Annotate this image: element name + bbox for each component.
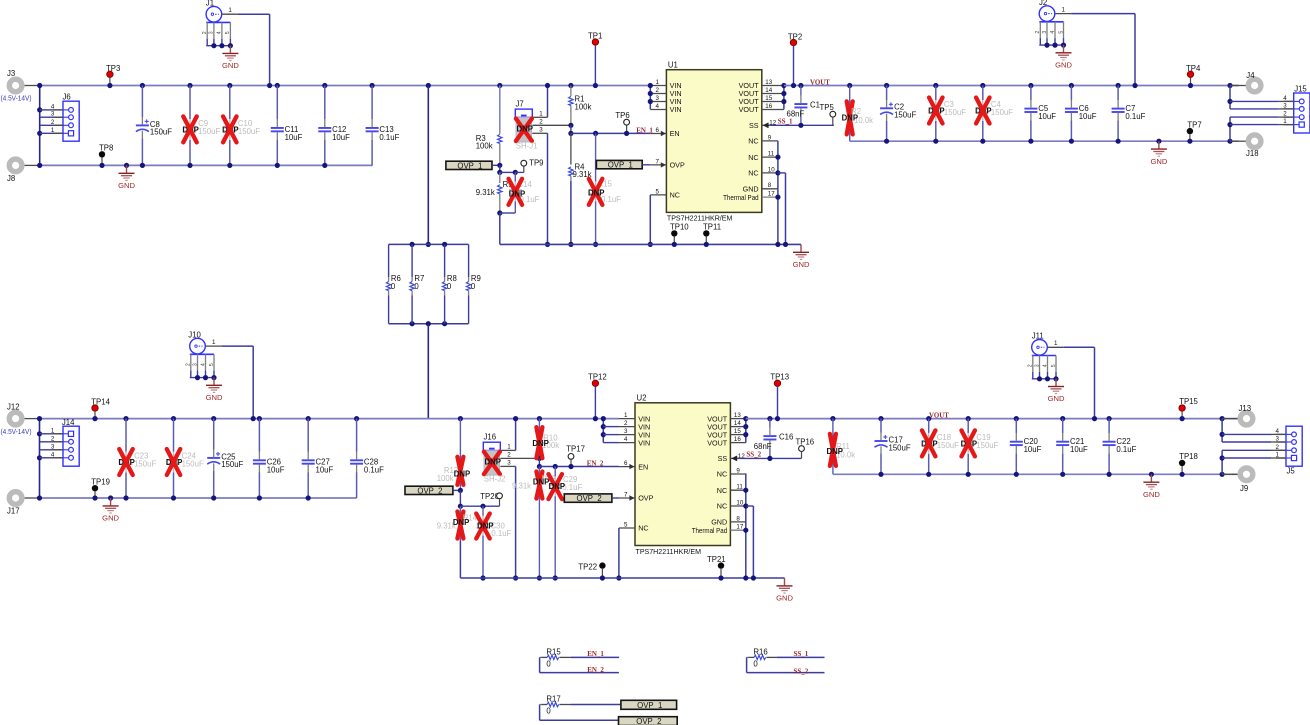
svg-text:J16: J16 [484, 433, 497, 442]
svg-text:J4: J4 [1246, 71, 1255, 80]
svg-text:DNP: DNP [454, 470, 470, 479]
svg-text:0: 0 [414, 282, 419, 291]
svg-text:0: 0 [546, 660, 551, 669]
svg-text:1: 1 [507, 444, 511, 451]
svg-text:10: 10 [768, 166, 775, 173]
resistor R15 0 ohm [540, 647, 571, 668]
net label SS_2 [746, 451, 761, 459]
wire output ground rail channel 1 [850, 140, 1239, 142]
capacitor C28 0.1uF [350, 416, 384, 498]
svg-text:TPS7H2211HKR/EM: TPS7H2211HKR/EM [636, 547, 702, 556]
svg-text:SS_1: SS_1 [778, 117, 793, 125]
wire J15 pin 1 [1230, 124, 1294, 126]
wire J5 upper bus [1220, 419, 1225, 442]
test point TP12 [588, 373, 607, 422]
svg-text:TP16: TP16 [796, 437, 815, 446]
wire J5 lower bus [1220, 450, 1225, 474]
capacitor C10 DNP [222, 83, 260, 168]
svg-text:10uF: 10uF [267, 465, 285, 474]
svg-text:NC: NC [717, 486, 727, 495]
ground symbol channel 1 input [118, 163, 135, 190]
resistor R7 0 ohm [410, 244, 424, 323]
wire GND rail channel 2 input [40, 497, 357, 499]
svg-text:1: 1 [212, 339, 216, 346]
wire EN_2 to R15 [540, 657, 619, 672]
resistor R6 0 ohm [386, 244, 400, 323]
svg-text:1: 1 [228, 7, 232, 14]
wire J15 pin 2 [1230, 116, 1294, 118]
svg-text:2: 2 [507, 452, 511, 459]
wire VIN rail channel 2 [40, 418, 620, 420]
svg-text:TP12: TP12 [588, 373, 607, 382]
svg-text:J13: J13 [1239, 404, 1252, 413]
svg-text:5: 5 [624, 522, 628, 529]
svg-text:0: 0 [753, 660, 758, 669]
test point TP13 [770, 373, 789, 422]
wire R14 to control ground bus channel 2 [459, 541, 461, 579]
svg-text:SH-J2: SH-J2 [484, 474, 506, 483]
svg-text:0.1uF: 0.1uF [1116, 445, 1136, 454]
wire VIN rail channel 1 [40, 85, 651, 87]
svg-text:U2: U2 [637, 394, 647, 403]
svg-text:VOUT: VOUT [810, 79, 830, 87]
wire J14 pin 4 [40, 457, 64, 459]
svg-text:OVP_2: OVP_2 [636, 717, 661, 725]
svg-text:GND: GND [206, 393, 223, 402]
op-amp U2 [619, 394, 747, 556]
wire U1 VIN pin chain [648, 83, 653, 110]
connector J6 [51, 93, 79, 142]
wire J5 pin 4 [1222, 433, 1286, 435]
svg-text:GND: GND [793, 260, 810, 269]
svg-text:J18: J18 [1246, 149, 1259, 158]
capacitor C15 DNP 0.1uF [588, 131, 621, 247]
wire GND rail channel 1 input [40, 164, 373, 166]
resistor R2 DNP 10.0k [842, 83, 874, 141]
svg-text:3: 3 [539, 127, 543, 134]
test point TP15 [1179, 397, 1199, 421]
svg-text:10uF: 10uF [1079, 112, 1097, 121]
svg-text:2: 2 [1035, 31, 1041, 34]
svg-text:J17: J17 [7, 507, 20, 516]
svg-text:NC: NC [748, 169, 758, 178]
wire J15 lower bus [1227, 117, 1232, 141]
junction dots J6 bus [37, 83, 42, 168]
wire control ground bus channel 1 [500, 243, 801, 245]
capacitor C12 10uF [318, 83, 350, 168]
wire J14 pin 2 [40, 441, 64, 443]
connector J14 [51, 418, 79, 466]
wire J16 pin 3 to ground bus [513, 466, 518, 580]
resistor R9 0 ohm [466, 244, 480, 323]
resistor R8 0 ohm [442, 244, 456, 323]
svg-text:VIN: VIN [670, 105, 682, 114]
svg-text:3: 3 [655, 95, 659, 102]
wire parallel resistor block bottom bus [389, 321, 469, 326]
svg-text:10: 10 [736, 499, 743, 506]
resistor R14 DNP 9.31k [437, 490, 478, 540]
svg-text:150uF: 150uF [134, 460, 156, 469]
svg-text:16: 16 [734, 436, 741, 443]
svg-text:TP9: TP9 [529, 159, 543, 168]
svg-text:J5: J5 [1287, 467, 1296, 476]
resistor R13 DNP 9.31k [512, 467, 556, 581]
svg-text:4: 4 [1042, 364, 1048, 367]
svg-text:6: 6 [655, 127, 659, 134]
svg-text:OVP: OVP [638, 494, 653, 503]
svg-text:13: 13 [734, 412, 741, 419]
svg-text:NC: NC [748, 137, 758, 146]
svg-text:150uF: 150uF [991, 108, 1013, 117]
svg-text:SS: SS [749, 121, 759, 130]
svg-text:150uF: 150uF [976, 441, 998, 450]
svg-text:2: 2 [624, 420, 628, 427]
svg-text:SH-J1: SH-J1 [516, 141, 538, 150]
svg-text:0: 0 [471, 282, 476, 291]
wire VOUT rail channel 2 [746, 418, 1239, 420]
test point TP14 [91, 397, 110, 421]
svg-text:Thermal Pad: Thermal Pad [723, 193, 759, 202]
wire J7 pin 3 to ground bus [545, 133, 550, 247]
resistor R16 0 ohm [747, 647, 777, 668]
svg-text:0: 0 [447, 282, 452, 291]
wire U1 NC pins right vertical 1 [775, 141, 780, 247]
svg-text:VIN: VIN [638, 438, 650, 447]
svg-text:150uF: 150uF [198, 127, 220, 136]
svg-text:DNP: DNP [517, 124, 533, 133]
svg-text:150uF: 150uF [238, 127, 260, 136]
resistor R17 0 ohm [540, 695, 571, 716]
wire control ground bus channel 2 [460, 577, 784, 579]
net label OVP_1 left [446, 161, 503, 170]
svg-text:10uF: 10uF [1024, 445, 1042, 454]
svg-text:OVP_1: OVP_1 [608, 161, 633, 170]
svg-text:150uF: 150uF [150, 128, 172, 137]
svg-text:3: 3 [624, 428, 628, 435]
svg-text:OVP: OVP [670, 161, 685, 170]
svg-text:DNP: DNP [532, 439, 548, 448]
svg-text:9: 9 [736, 467, 740, 474]
svg-text:1: 1 [655, 79, 659, 86]
svg-text:VOUT: VOUT [929, 411, 949, 419]
resistor R11 DNP 10.0k [827, 416, 856, 474]
svg-text:TP8: TP8 [99, 143, 113, 152]
wire J15 upper bus [1227, 86, 1232, 109]
test point TP19 [91, 477, 110, 500]
svg-text:TP19: TP19 [91, 477, 110, 486]
net label SS_1 [778, 117, 793, 125]
svg-text:2: 2 [539, 119, 543, 126]
svg-text:EN: EN [638, 462, 648, 471]
capacitor C17 150uF [875, 416, 911, 477]
capacitor C23 DNP [118, 416, 156, 501]
test point TP6 [615, 111, 629, 136]
capacitor C30 DNP 0.1uF [476, 506, 511, 580]
wire J5 pin 3 [1222, 441, 1286, 443]
svg-text:17: 17 [736, 524, 743, 531]
test point TP18 [1179, 452, 1198, 477]
capacitor C13 0.1uF [366, 83, 400, 165]
svg-text:NC: NC [638, 524, 648, 533]
op-amp U1 [650, 61, 784, 223]
connector J5 [1276, 426, 1303, 475]
svg-text:5: 5 [1058, 31, 1064, 34]
ground symbol J1 [222, 46, 239, 71]
svg-text:Thermal Pad: Thermal Pad [692, 526, 728, 535]
resistor R5 9.31k [476, 165, 514, 215]
wire J14 bus [39, 419, 41, 498]
svg-text:10uF: 10uF [1038, 112, 1056, 121]
svg-text:DNP: DNP [477, 522, 493, 531]
wire parallel resistor block top bus [389, 242, 469, 247]
svg-text:8: 8 [736, 515, 740, 522]
capacitor C2 150uF [880, 83, 916, 144]
wire TP20 junction [460, 504, 499, 509]
svg-text:14: 14 [734, 420, 741, 427]
wire SS_2 to R16 [747, 657, 825, 672]
capacitor C3 DNP [928, 83, 966, 144]
svg-text:TP6: TP6 [615, 111, 629, 120]
svg-text:GND: GND [1055, 61, 1072, 70]
junction dots J14 bus [37, 416, 42, 501]
svg-text:DNP: DNP [827, 447, 843, 456]
capacitor C26 10uF [253, 416, 285, 501]
test point TP10 [670, 223, 689, 247]
test point TP7 [1187, 120, 1202, 143]
svg-text:6: 6 [624, 460, 628, 467]
svg-text:5: 5 [1051, 364, 1057, 367]
svg-text:GND: GND [1048, 394, 1065, 403]
net label EN_2 [587, 459, 604, 467]
ground symbol channel 1 output [1150, 139, 1167, 166]
svg-text:GND: GND [222, 61, 239, 70]
svg-text:DNP: DNP [842, 114, 858, 123]
svg-text:GND: GND [102, 514, 119, 523]
svg-text:0: 0 [546, 707, 551, 716]
wire SS_2 net [739, 457, 801, 459]
wire J16 pin 1 to VIN rail [513, 416, 518, 450]
svg-text:SS_2: SS_2 [746, 451, 761, 459]
svg-text:100k: 100k [437, 474, 454, 483]
svg-text:(4.5V-14V): (4.5V-14V) [1, 427, 32, 436]
svg-text:0.1uF: 0.1uF [379, 133, 399, 142]
wire J15 pin 4 [1230, 100, 1294, 102]
resistor R10 DNP 100k [532, 416, 559, 461]
test point TP8 [99, 143, 114, 168]
ground symbol J10 [206, 377, 223, 402]
capacitor C5 10uF [1024, 83, 1056, 144]
capacitor C29 DNP 0.1uF [548, 464, 582, 581]
wire U2 VIN pin chain [601, 416, 606, 443]
svg-text:DNP: DNP [549, 482, 565, 491]
wire J6 pin 1 [40, 132, 63, 134]
svg-text:TP22: TP22 [578, 562, 597, 571]
svg-text:4: 4 [200, 363, 206, 366]
test point TP4 [1186, 64, 1201, 88]
svg-text:J3: J3 [7, 69, 15, 78]
connector J2 [1035, 0, 1071, 48]
svg-text:TP11: TP11 [703, 223, 721, 232]
jumper J7 DNP SH-J1 [515, 100, 571, 151]
svg-text:J6: J6 [63, 93, 71, 102]
svg-text:150uF: 150uF [182, 460, 204, 469]
svg-text:100k: 100k [476, 142, 493, 151]
svg-text:2: 2 [1028, 364, 1034, 367]
wire J7 pin 1 to VIN rail [545, 83, 550, 117]
svg-text:0: 0 [391, 282, 396, 291]
svg-text:1: 1 [624, 412, 628, 419]
test point TP22 [578, 562, 605, 580]
svg-text:1: 1 [1062, 6, 1066, 13]
svg-text:C1: C1 [810, 101, 820, 110]
capacitor C9 DNP [182, 83, 220, 168]
wire R4 to control ground bus [568, 181, 573, 247]
svg-text:GND: GND [1143, 490, 1160, 499]
svg-text:J15: J15 [1294, 85, 1307, 94]
net label EN_1 bottom [587, 650, 604, 658]
connector J1 [202, 0, 238, 48]
svg-text:J12: J12 [7, 403, 20, 412]
svg-text:3: 3 [209, 31, 215, 34]
test point TP16 [796, 437, 815, 458]
resistor R4 9.31k [569, 133, 592, 181]
ground symbol channel 2 control [776, 578, 793, 603]
capacitor C8 150uF [136, 83, 172, 168]
test point TP5 [820, 103, 836, 126]
svg-text:DNP: DNP [485, 457, 501, 466]
label input voltage range channel 1 [1, 94, 32, 103]
capacitor C22 0.1uF [1103, 416, 1137, 477]
wire U1 VOUT pin chain [781, 83, 786, 110]
svg-text:J8: J8 [7, 174, 15, 183]
svg-text:NC: NC [717, 470, 727, 479]
wire VOUT rail channel 1 [784, 85, 1239, 87]
svg-text:5: 5 [209, 363, 215, 366]
wire U1 NC pin 10 vertical 2 [778, 173, 788, 247]
svg-text:4: 4 [655, 103, 659, 110]
net label VOUT channel 2 [929, 411, 949, 419]
svg-text:OVP_2: OVP_2 [417, 486, 442, 495]
wire EN_1 to R15 [571, 656, 619, 658]
test point TP9 [515, 159, 543, 173]
svg-text:14: 14 [765, 87, 772, 94]
connector J10 [186, 331, 222, 381]
wire U2 VOUT pin chain [743, 416, 748, 443]
svg-text:J10: J10 [188, 331, 201, 340]
svg-text:13: 13 [765, 79, 772, 86]
capacitor C16 68nF [754, 416, 794, 461]
test point TP11 [703, 223, 721, 247]
svg-text:4: 4 [624, 436, 628, 443]
svg-text:2: 2 [202, 31, 208, 34]
connector J3 [7, 69, 40, 92]
test point TP20 [480, 492, 502, 506]
net label SS_2 bottom [794, 667, 809, 675]
svg-text:7: 7 [624, 492, 628, 499]
wire J2 pin 1 to VOUT rail [1071, 14, 1138, 89]
svg-text:J7: J7 [516, 100, 524, 109]
capacitor C27 10uF [302, 416, 334, 501]
svg-text:J11: J11 [1032, 332, 1044, 341]
svg-text:4: 4 [217, 31, 223, 34]
connector J11 [1028, 332, 1064, 382]
svg-text:17: 17 [768, 191, 775, 198]
svg-text:4: 4 [1050, 31, 1056, 34]
svg-text:VOUT: VOUT [707, 438, 728, 447]
svg-text:J9: J9 [1240, 484, 1248, 493]
svg-text:TP21: TP21 [707, 555, 726, 564]
test point TP17 [566, 444, 585, 469]
svg-text:9: 9 [768, 134, 772, 141]
wire J1 pin 1 to VIN rail [238, 14, 272, 88]
svg-text:0.1uF: 0.1uF [491, 529, 511, 538]
svg-text:SS_1: SS_1 [794, 650, 809, 658]
connector J4 [1227, 71, 1260, 92]
svg-text:3: 3 [192, 363, 198, 366]
svg-text:9.31k: 9.31k [512, 482, 531, 491]
wire U2 VIN pin 2 stub [603, 426, 619, 428]
svg-text:EN_2: EN_2 [587, 666, 604, 674]
ground symbol channel 1 control [793, 244, 810, 269]
svg-text:1: 1 [539, 111, 543, 118]
test point TP21 [707, 555, 726, 581]
connector J8 [7, 159, 40, 183]
resistor R1 100k [568, 83, 591, 128]
svg-text:10uF: 10uF [285, 133, 303, 142]
svg-text:1: 1 [1054, 340, 1058, 347]
net label EN_2 bottom [587, 666, 604, 674]
net label SS_1 bottom [794, 650, 809, 658]
wire output ground rail channel 2 [833, 473, 1239, 475]
svg-text:16: 16 [765, 103, 772, 110]
net label VOUT channel 1 [810, 79, 830, 87]
svg-text:0.1uF: 0.1uF [364, 465, 384, 474]
wire U2 VIN pin 4 stub [603, 442, 619, 444]
svg-text:DNP: DNP [588, 188, 604, 197]
ground symbol channel 2 input [102, 495, 119, 522]
svg-text:150uF: 150uF [937, 441, 959, 450]
svg-text:EN_1: EN_1 [587, 650, 604, 658]
svg-text:3: 3 [1042, 31, 1048, 34]
svg-text:TP17: TP17 [566, 444, 585, 453]
capacitor C1 68nF [787, 83, 820, 128]
svg-text:R16: R16 [753, 647, 767, 656]
svg-text:150uF: 150uF [944, 108, 966, 117]
wire R17 to OVP_2 flag [540, 705, 619, 721]
svg-text:7: 7 [655, 159, 659, 166]
svg-text:150uF: 150uF [889, 443, 911, 452]
capacitor C14 DNP 0.1uF [500, 170, 540, 213]
wire J6 bus [39, 86, 41, 166]
connector J18 [1227, 135, 1260, 158]
svg-text:DNP: DNP [533, 478, 549, 487]
resistor R12 DNP 100k [437, 416, 471, 490]
svg-text:5: 5 [655, 189, 659, 196]
svg-text:SS: SS [718, 454, 728, 463]
svg-text:TP5: TP5 [820, 103, 835, 112]
net label OVP_2 left [405, 486, 463, 495]
wire J5 pin 1 [1222, 457, 1286, 459]
svg-text:R17: R17 [546, 695, 560, 704]
capacitor C11 10uF [271, 83, 303, 168]
wire R10 to EN junction [537, 458, 542, 469]
svg-text:J2: J2 [1039, 0, 1047, 7]
connector J13 [1220, 404, 1253, 425]
net label OVP_2 bottom [619, 717, 678, 725]
svg-text:100k: 100k [575, 102, 592, 111]
capacitor C19 DNP [961, 416, 999, 477]
ground symbol J11 [1048, 379, 1065, 404]
